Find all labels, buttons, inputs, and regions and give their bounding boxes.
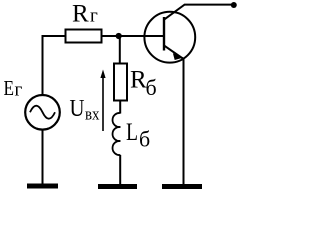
node A junction dot (116, 33, 122, 39)
svg-text:г: г (90, 6, 98, 27)
wire resistor to transistor base (103, 35, 164, 37)
inductor L1 (Lб) (113, 113, 121, 155)
wire Lб to ground (119, 155, 121, 185)
wire left vertical + top horizontal from source to resistor (43, 36, 65, 95)
resistor R2 (Rб) (114, 64, 127, 101)
svg-text:U: U (70, 96, 85, 122)
wire emitter to ground (183, 58, 185, 185)
svg-text:б: б (146, 75, 157, 100)
svg-text:E: E (4, 76, 15, 100)
transistor Q1 circle (144, 12, 195, 63)
transistor collector (164, 5, 234, 20)
collector terminal dot (231, 2, 237, 8)
voltage arrow Uвх (102, 77, 104, 131)
wire Rб to Lб (119, 102, 121, 114)
sine wave inside source (30, 106, 55, 119)
svg-text:R: R (130, 67, 147, 94)
svg-text:L: L (126, 119, 138, 146)
ground left (27, 184, 58, 189)
svg-text:R: R (72, 1, 89, 28)
svg-text:вх: вх (85, 105, 100, 124)
transistor emitter with arrow (164, 45, 184, 59)
wire source to ground (42, 129, 44, 185)
transistor base bar (163, 17, 165, 51)
resistor R1 (Rг) (66, 30, 102, 43)
svg-text:б: б (139, 127, 150, 152)
ground middle (98, 184, 137, 189)
wire junction down to Rб (119, 36, 121, 63)
source E1 (Eг) circle (25, 95, 60, 130)
ground right (162, 184, 202, 189)
svg-text:г: г (15, 80, 23, 101)
